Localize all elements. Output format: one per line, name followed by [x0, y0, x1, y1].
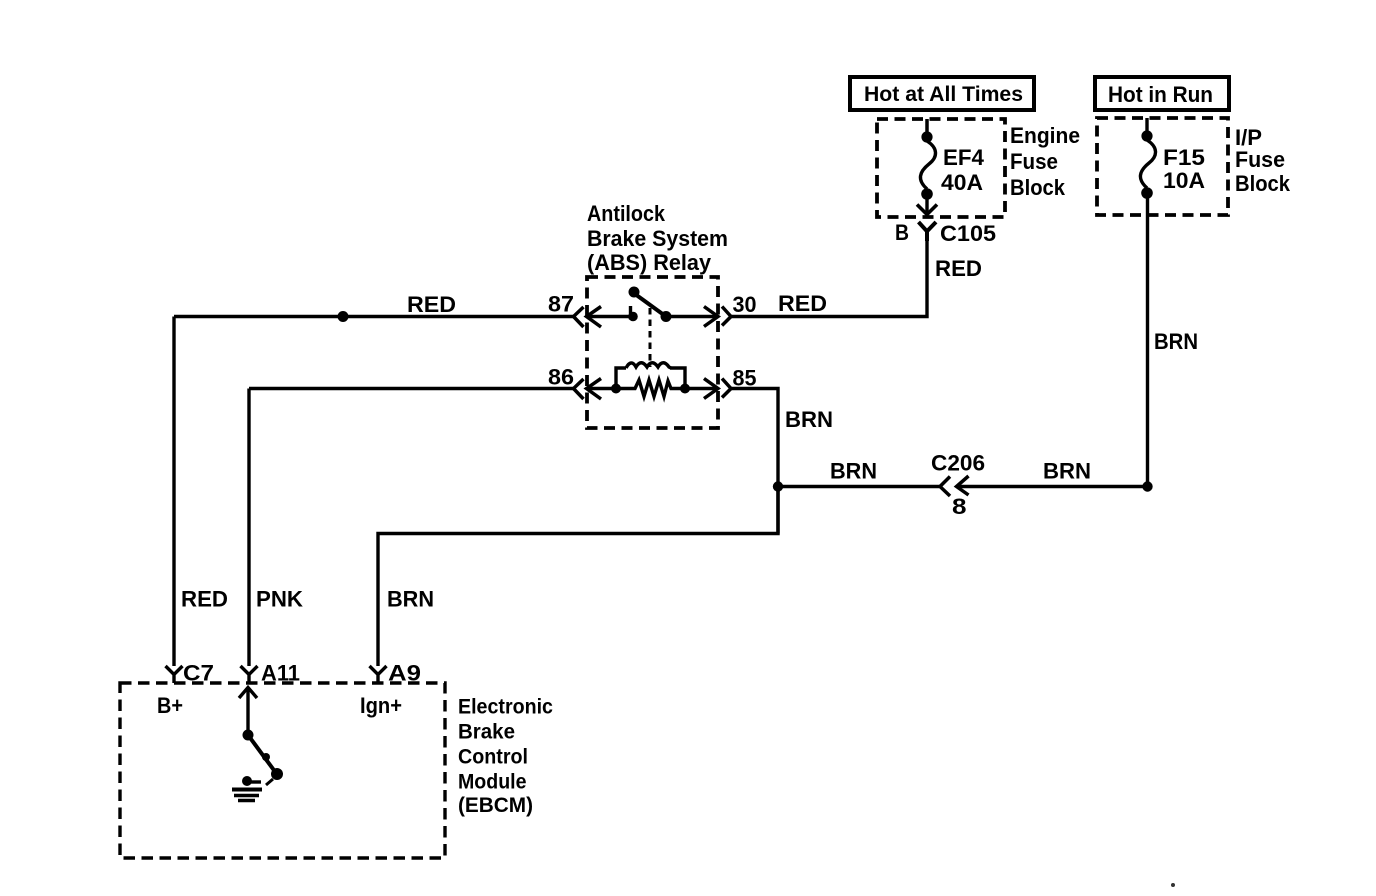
connector fork pin 87	[574, 307, 584, 327]
svg-text:Fuse: Fuse	[1010, 149, 1058, 174]
wire BRN from F15 down to C206 row	[1146, 193, 1149, 487]
svg-text:Control: Control	[458, 746, 528, 769]
EBCM internal switch blade	[243, 730, 284, 786]
svg-text:Fuse: Fuse	[1235, 147, 1285, 172]
relay switch fixed contact	[628, 306, 638, 321]
svg-text:C7: C7	[183, 661, 214, 686]
svg-text:B+: B+	[157, 693, 183, 718]
relay coil zigzag	[616, 380, 690, 397]
svg-text:87: 87	[548, 292, 574, 317]
wire PNK riser to EBCM A11	[247, 389, 250, 667]
wire RED from C105 to relay pin 30	[731, 241, 927, 317]
relay switch blade	[629, 287, 672, 323]
junction dot BRN node	[773, 481, 783, 491]
svg-text:Engine: Engine	[1010, 123, 1080, 148]
relay title Antilock Brake System (ABS) Relay	[587, 201, 728, 275]
wire RED row to relay pin 87	[174, 315, 574, 318]
EBCM internal switch arrow	[239, 688, 257, 736]
relay actuator dashed link	[649, 308, 652, 367]
power box Hot at All Times	[850, 77, 1034, 110]
fuse EF4 40A	[917, 119, 985, 215]
svg-text:30: 30	[733, 292, 757, 317]
relay pin 30 arrow	[666, 307, 718, 327]
wire BRN to C206	[778, 485, 940, 488]
svg-text:A11: A11	[261, 661, 300, 686]
label I/P Fuse Block	[1235, 125, 1291, 196]
svg-text:(EBCM): (EBCM)	[458, 794, 533, 817]
svg-text:Brake System: Brake System	[587, 226, 728, 251]
wire BRN to EBCM A9	[378, 487, 778, 667]
svg-text:RED: RED	[407, 292, 456, 317]
svg-text:C105: C105	[940, 221, 996, 246]
relay pin 87 arrow	[587, 307, 635, 328]
svg-text:Hot in Run: Hot in Run	[1108, 82, 1213, 107]
svg-text:Electronic: Electronic	[458, 696, 553, 719]
svg-text:Block: Block	[1010, 175, 1066, 200]
engine fuse block dashed box	[877, 119, 1005, 217]
connector fork pin 86	[574, 379, 584, 399]
wire BRN from pin 85 down	[731, 389, 778, 534]
connector fork pin 85	[722, 379, 731, 398]
connector C206 arrow	[957, 476, 1148, 495]
connector pin A11 female	[241, 661, 301, 686]
svg-text:(ABS) Relay: (ABS) Relay	[587, 250, 712, 275]
relay pin 86 arrow	[587, 379, 619, 400]
svg-text:Brake: Brake	[458, 721, 515, 744]
svg-text:PNK: PNK	[256, 587, 303, 612]
splice dot on RED row	[338, 311, 349, 322]
svg-text:40A: 40A	[941, 170, 983, 195]
label Electronic Brake Control Module (EBCM)	[458, 696, 553, 818]
wire RED riser to EBCM C7	[172, 317, 175, 667]
power box Hot in Run	[1095, 77, 1229, 110]
connector fork pin 30	[722, 307, 731, 326]
junction dot at F15 drop	[1142, 481, 1152, 491]
EBCM dashed box	[120, 683, 445, 858]
ABS relay dashed box	[587, 277, 718, 428]
scan speck	[1171, 883, 1175, 887]
label Engine Fuse Block	[1010, 123, 1080, 200]
I/P fuse block dashed box	[1097, 118, 1228, 215]
fuse F15 10A	[1140, 118, 1205, 199]
svg-text:RED: RED	[935, 256, 982, 281]
svg-text:RED: RED	[778, 291, 827, 316]
svg-text:F15: F15	[1163, 145, 1205, 170]
svg-text:Hot at All Times: Hot at All Times	[864, 83, 1023, 106]
svg-text:Antilock: Antilock	[587, 201, 666, 226]
svg-text:B: B	[895, 220, 909, 245]
connector C206 fork	[940, 477, 950, 497]
wire PNK row to relay pin 86	[249, 387, 574, 390]
svg-text:Ign+: Ign+	[360, 693, 402, 718]
svg-text:Module: Module	[458, 771, 527, 794]
connector C105 female half	[895, 220, 996, 246]
svg-text:RED: RED	[181, 587, 228, 612]
svg-text:A9: A9	[388, 661, 421, 686]
svg-text:BRN: BRN	[785, 407, 833, 432]
svg-text:Block: Block	[1235, 171, 1291, 196]
ground symbol	[232, 776, 262, 801]
relay coil parallel loop resistor	[611, 363, 685, 394]
relay pin 85 arrow	[685, 379, 718, 399]
svg-text:85: 85	[733, 366, 757, 391]
svg-text:BRN: BRN	[1154, 329, 1198, 354]
svg-text:10A: 10A	[1163, 168, 1205, 193]
svg-text:BRN: BRN	[830, 459, 877, 484]
svg-text:BRN: BRN	[387, 587, 434, 612]
svg-text:EF4: EF4	[943, 145, 985, 170]
svg-text:8: 8	[952, 494, 967, 519]
svg-text:BRN: BRN	[1043, 459, 1091, 484]
svg-text:86: 86	[548, 365, 574, 390]
connector pin A9 female	[370, 661, 422, 686]
connector pin C7 female	[166, 661, 215, 686]
svg-text:C206: C206	[931, 451, 985, 476]
